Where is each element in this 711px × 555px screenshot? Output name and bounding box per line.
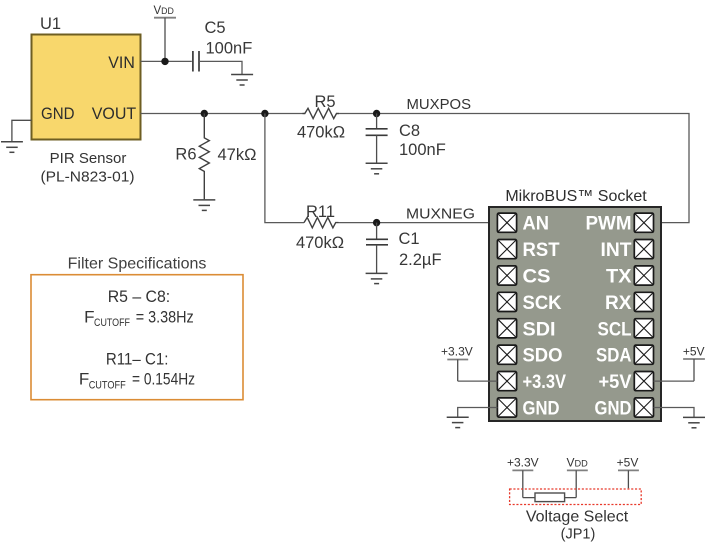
ground (socket left) [447, 417, 469, 427]
svg-text:+3.3V: +3.3V [507, 456, 539, 470]
svg-text:47kΩ: 47kΩ [218, 146, 257, 164]
svg-text:470kΩ: 470kΩ [297, 123, 345, 141]
filter spec text Fcutoff 3.38Hz [84, 307, 194, 329]
svg-text:Filter Specifications: Filter Specifications [68, 256, 207, 273]
pin PWM [586, 213, 654, 235]
svg-text:470kΩ: 470kΩ [296, 234, 344, 252]
+3.3V supply symbol (JP1) [507, 456, 539, 498]
svg-text:SCL: SCL [598, 319, 632, 340]
capacitor C5 [193, 51, 199, 72]
svg-text:+3.3V: +3.3V [523, 372, 567, 393]
value 470kOhm (R5) [297, 123, 345, 141]
wire C8 to ground [376, 135, 378, 163]
pin SCL [598, 319, 654, 341]
svg-text:RX: RX [605, 293, 632, 314]
U1 part name label [41, 150, 135, 186]
svg-text:(PL-N823-01): (PL-N823-01) [41, 169, 135, 186]
svg-text:+5V: +5V [683, 345, 705, 359]
+3.3V supply symbol (left) [441, 345, 473, 382]
svg-text:INT: INT [601, 240, 632, 261]
svg-text:2.2µF: 2.2µF [399, 251, 442, 269]
label R5 [314, 93, 335, 111]
wire branch to MUXNEG row [265, 114, 304, 223]
Vdd supply symbol [154, 5, 177, 62]
pin INT [601, 240, 654, 262]
wire +5V to socket [654, 380, 695, 382]
U1 reference designator [40, 15, 61, 33]
svg-text:Voltage Select: Voltage Select [526, 508, 629, 525]
JP1 selection area (red dashed) [510, 489, 642, 505]
svg-text:SDI: SDI [523, 319, 556, 340]
svg-text:FCUTOFF= 3.38Hz: FCUTOFF= 3.38Hz [84, 307, 194, 329]
node MUXPOS label [407, 97, 472, 113]
filter spec text Fcutoff 0.154Hz [79, 370, 195, 392]
pin RX [605, 292, 654, 314]
value 100nF (C5) [206, 40, 253, 58]
PIR sensor U1 body [32, 35, 141, 140]
pin RST [497, 240, 559, 262]
Vdd supply symbol (JP1) [567, 456, 589, 498]
pin +5V (socket) [599, 372, 654, 394]
wire VOUT to R5 [141, 113, 303, 115]
node junction C8 [373, 110, 380, 117]
svg-text:RST: RST [523, 240, 560, 261]
label R6 [175, 146, 196, 164]
pin SDA [596, 345, 654, 367]
svg-text:R5 – C8:: R5 – C8: [108, 287, 171, 306]
resistor R5 [303, 108, 340, 118]
pin TX [606, 266, 654, 288]
pin SDO [497, 345, 562, 367]
Voltage Select label [526, 508, 629, 525]
wire junction to C1 [376, 223, 378, 239]
ground (R6) [193, 200, 215, 211]
pin GND right (socket) [595, 398, 654, 420]
svg-text:SDO: SDO [523, 346, 563, 367]
wire C5 to ground [200, 61, 242, 75]
JP1 label [561, 527, 596, 543]
svg-text:VDD: VDD [154, 5, 174, 17]
value 100nF (C8) [399, 141, 446, 159]
wire C1 to ground [376, 245, 378, 273]
svg-text:+3.3V: +3.3V [441, 345, 473, 359]
label C1 [399, 230, 420, 248]
svg-text:PWM: PWM [586, 214, 632, 235]
svg-text:100nF: 100nF [399, 141, 446, 159]
svg-text:C5: C5 [205, 19, 226, 37]
filter specifications box [31, 275, 243, 400]
pin label VOUT [92, 104, 137, 123]
svg-text:SDA: SDA [596, 346, 632, 367]
svg-text:U1: U1 [40, 15, 61, 33]
svg-text:MikroBUS™ Socket: MikroBUS™ Socket [505, 188, 647, 205]
node junction MUXNEG branch [261, 110, 268, 117]
svg-text:CS: CS [523, 267, 551, 288]
filter spec text R11-C1 [106, 349, 168, 368]
wire jumper JP1 [523, 497, 576, 499]
pin AN [497, 213, 549, 235]
wire VIN [141, 60, 192, 62]
ground (U1 GND) [1, 142, 23, 153]
pin label VIN [108, 53, 135, 72]
node MUXNEG label [406, 206, 475, 222]
MikroBUS socket U2 body [489, 207, 661, 421]
resistor R6 [199, 114, 209, 200]
svg-text:R5: R5 [314, 93, 335, 111]
node junction C1 [373, 219, 380, 226]
capacitor C1 [366, 239, 388, 245]
value 47kOhm (R6) [218, 146, 257, 164]
value 2.2uF (C1) [399, 251, 442, 269]
Filter Specifications title [68, 256, 207, 273]
svg-text:(JP1): (JP1) [561, 527, 596, 543]
ground (C8) [366, 163, 388, 174]
ground (C1) [366, 273, 388, 283]
svg-text:SCK: SCK [523, 293, 562, 314]
wire GND pin to ground [12, 120, 32, 141]
pin SCK [497, 292, 561, 314]
jumper shunt JP1 [535, 493, 565, 502]
label C8 [399, 122, 420, 140]
svg-text:GND: GND [595, 399, 632, 420]
label R11 [306, 203, 335, 221]
wire junction to C8 [376, 114, 378, 129]
wire +3.3V to socket [458, 380, 498, 382]
label C5 [205, 19, 226, 37]
svg-text:MUXNEG: MUXNEG [406, 206, 475, 222]
wire R5 to MUXPOS / PWM [339, 114, 689, 223]
pin CS [497, 266, 550, 288]
capacitor C8 [366, 129, 388, 136]
ground (C5) [231, 75, 253, 86]
resistor R11 [304, 217, 339, 227]
wire socket GND left [458, 408, 498, 418]
svg-text:R11: R11 [306, 203, 335, 221]
svg-text:GND: GND [523, 399, 560, 420]
svg-text:100nF: 100nF [206, 40, 253, 58]
ground (socket right) [683, 417, 705, 427]
svg-text:VOUT: VOUT [92, 104, 137, 123]
svg-text:AN: AN [523, 214, 550, 235]
svg-text:PIR Sensor: PIR Sensor [50, 150, 127, 167]
value 470kOhm (R11) [296, 234, 344, 252]
svg-text:GND: GND [41, 104, 75, 123]
svg-text:+5V: +5V [617, 456, 639, 470]
wire R11 to AN pin [339, 222, 498, 224]
svg-text:C8: C8 [399, 122, 420, 140]
svg-text:VIN: VIN [108, 53, 135, 72]
svg-text:MUXPOS: MUXPOS [407, 97, 472, 113]
pin GND left (socket) [497, 398, 559, 420]
filter spec text R5-C8 [108, 287, 171, 306]
svg-text:R11– C1:: R11– C1: [106, 349, 168, 368]
pin SDI [497, 319, 555, 341]
MikroBUS socket title [505, 188, 647, 205]
+5V supply symbol (right) [683, 345, 705, 382]
svg-text:C1: C1 [399, 230, 420, 248]
node junction R6 tap [201, 110, 208, 117]
svg-text:R6: R6 [175, 146, 196, 164]
pin +3.3V (socket) [497, 372, 566, 394]
svg-text:TX: TX [606, 267, 632, 288]
svg-text:FCUTOFF= 0.154Hz: FCUTOFF= 0.154Hz [79, 370, 195, 392]
svg-text:VDD: VDD [567, 456, 589, 470]
node junction Vdd/VIN [161, 58, 168, 65]
wire socket GND right [654, 408, 695, 418]
pin label GND [41, 104, 75, 123]
+5V supply symbol (JP1) [617, 456, 639, 489]
svg-text:+5V: +5V [599, 372, 632, 393]
